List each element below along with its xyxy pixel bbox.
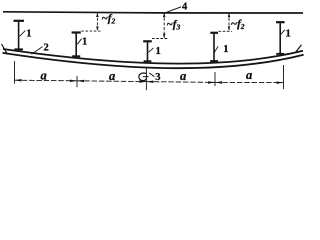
- leader for label 1 (leftmost): [20, 31, 26, 37]
- svg-text:4: 4: [182, 1, 188, 12]
- svg-text:1: 1: [223, 44, 228, 55]
- svg-text:a: a: [246, 68, 252, 82]
- svg-text:~f2: ~f2: [102, 13, 116, 26]
- support jack 3 (center): cap, stem, foot: [143, 41, 152, 61]
- leader for label 1 (second): [77, 39, 81, 45]
- svg-text:1: 1: [156, 46, 161, 57]
- gap dimension f2 right: dashed vertical with arrows: [219, 13, 233, 31]
- support jack 1 (leftmost): cap, stem, foot: [14, 21, 25, 50]
- beam left end slash: [2, 44, 8, 54]
- dimension line segment a4: [215, 81, 284, 83]
- svg-text:a: a: [109, 69, 115, 83]
- dimension extension line center (below support 3): [145, 68, 147, 90]
- svg-text:~f2: ~f2: [231, 18, 245, 31]
- dimension line segment a2: [77, 80, 146, 83]
- dimension arrowheads: [15, 79, 284, 84]
- dimension line segment a1: [15, 79, 78, 82]
- support jack 2: cap, stem, foot: [72, 33, 81, 57]
- svg-text:3: 3: [155, 72, 160, 83]
- gap dimension f3 center: dashed vertical with arrows: [152, 13, 168, 38]
- leader for label 1 (center): [149, 48, 154, 52]
- dimension tick at support 2: [76, 76, 78, 87]
- svg-text:~f3: ~f3: [167, 18, 181, 31]
- beam right end slash: [296, 45, 302, 53]
- dimension tick at support 4: [214, 72, 216, 86]
- dimension extension line left (below support 1): [14, 61, 16, 84]
- hook mark at center point 3: [139, 73, 147, 81]
- dimension line segment a3: [146, 81, 215, 84]
- svg-text:1: 1: [286, 29, 291, 40]
- leader for label 1 (fourth): [214, 46, 218, 52]
- svg-text:1: 1: [82, 37, 87, 48]
- svg-text:1: 1: [26, 29, 31, 40]
- leader for label 2 (shaft): [32, 47, 43, 55]
- gap dimension f2 left: dashed vertical with arrows: [81, 13, 100, 31]
- support jack 4: cap, stem, foot: [210, 33, 218, 62]
- svg-text:2: 2: [44, 42, 49, 53]
- svg-text:a: a: [180, 69, 186, 83]
- straightedge 4 (top reference line): [3, 12, 303, 13]
- beam 2 top edge (bent shaft): [3, 49, 303, 64]
- beam 2 bottom edge: [3, 53, 304, 68]
- leader to label 4: [167, 7, 182, 12]
- support jack 5 (rightmost): cap, stem, foot: [276, 22, 285, 54]
- svg-text:a: a: [41, 69, 47, 83]
- dimension extension line right (below support 5): [283, 65, 285, 89]
- leader for label 1 (rightmost): [281, 30, 285, 35]
